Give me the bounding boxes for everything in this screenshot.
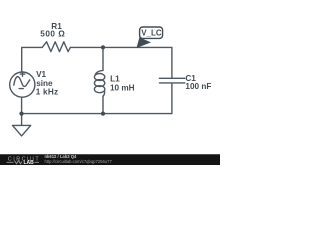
node junction bottom (L1/bottom rail) [101,112,105,116]
svg-text:V1: V1 [36,70,46,79]
svg-text:V_LC: V_LC [141,28,162,37]
CircuitLab logo [7,156,41,166]
voltage source V1 [10,72,35,97]
node junction bottom-left [19,112,23,116]
ground [21,114,23,126]
resistor R1 [42,42,70,52]
svg-text:http://circuitlab.com/c7qbqp72: http://circuitlab.com/c7qbqp7256u77 [45,159,113,164]
wire top rail (R1 to top-right corner) [70,47,171,77]
svg-text:500 Ω: 500 Ω [40,29,65,38]
V1 minus sign [19,88,23,90]
wire V1 bottom [21,97,23,113]
node junction top (L1/top rail) [101,45,105,49]
V1 plus sign [20,73,24,75]
svg-text:100 nF: 100 nF [185,82,211,91]
svg-text:10 mH: 10 mH [110,84,135,93]
inductor L1 [102,47,104,70]
svg-text:1 kHz: 1 kHz [36,88,59,97]
wire top-left vertical (V1 top to top rail) [22,47,42,72]
svg-text:LAB: LAB [24,160,35,165]
wire right vertical (C1 bottom to bottom rail) [22,84,172,114]
svg-text:L1: L1 [110,75,120,84]
footer bar [0,154,220,165]
capacitor C1 plates [159,77,184,79]
node flag V_LC [137,27,163,48]
